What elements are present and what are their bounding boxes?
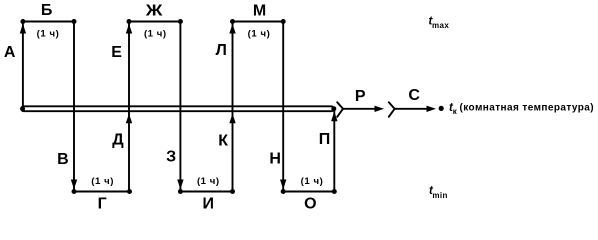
svg-text:(1 ч): (1 ч) [248,28,271,39]
wire: segment I bottom hold [180,191,232,193]
node dot top1-left [20,19,25,24]
svg-text:Р: Р [355,88,366,105]
svg-text:(1 ч): (1 ч) [144,28,167,39]
svg-text:(комнатная температура): (комнатная температура) [460,103,595,114]
wire: segment K-L rise [232,22,234,192]
svg-text:Б: Б [41,2,53,19]
arrow S [395,108,428,110]
wire: segment B top hold [23,21,74,23]
node dot top3-right [281,19,286,24]
node dot bot1-right [127,189,132,194]
svg-text:(1 ч): (1 ч) [91,176,114,187]
svg-text:min: min [432,191,447,200]
svg-text:Е: Е [111,44,122,61]
node dot top2-left [127,19,132,24]
wire: segment G bottom hold [74,191,130,193]
wire: segment M top hold [233,21,284,23]
svg-text:Д: Д [112,132,124,149]
node dot bot2-left [178,189,183,194]
node dot bot3-left [281,189,286,194]
room-temperature bar [21,106,334,111]
node dot bar-right [331,106,336,111]
svg-text:Л: Л [216,42,227,59]
wire: segment A rise [22,22,24,109]
svg-text:к: к [453,107,458,116]
wire: segment Z fall [179,22,181,192]
break mark 1 [337,102,343,117]
svg-text:О: О [304,196,316,212]
node dot bot3-right [332,189,337,194]
svg-text:max: max [432,21,449,30]
wire: segment P rise [333,109,335,192]
wire: segment D-E rise [128,22,130,192]
svg-text:Ж: Ж [145,2,163,19]
wire: segment V fall [73,22,75,192]
node dot top2-right [178,19,183,24]
svg-text:Г: Г [98,196,107,213]
svg-text:П: П [319,131,331,148]
node dot top1-right [72,19,77,24]
node dot bot2-right [230,189,235,194]
svg-text:З: З [166,148,176,165]
svg-text:(1 ч): (1 ч) [37,28,60,39]
svg-text:С: С [408,87,420,104]
svg-text:В: В [57,151,69,168]
wire: segment O bottom hold [283,191,334,193]
svg-text:(1 ч): (1 ч) [197,176,220,187]
svg-text:А: А [4,44,16,61]
arrow R [343,108,376,110]
svg-text:(1 ч): (1 ч) [301,176,324,187]
wire: segment Zh top hold [129,21,180,23]
node dot bar-left [20,106,25,111]
node dot top3-left [230,19,235,24]
node dot tk [439,106,444,111]
node dot bot1-left [72,189,77,194]
svg-text:М: М [253,2,266,19]
svg-text:Н: Н [269,150,281,167]
svg-text:К: К [218,132,228,149]
break mark 2 [389,102,395,117]
svg-text:И: И [203,196,215,213]
wire: segment N fall [282,22,284,192]
